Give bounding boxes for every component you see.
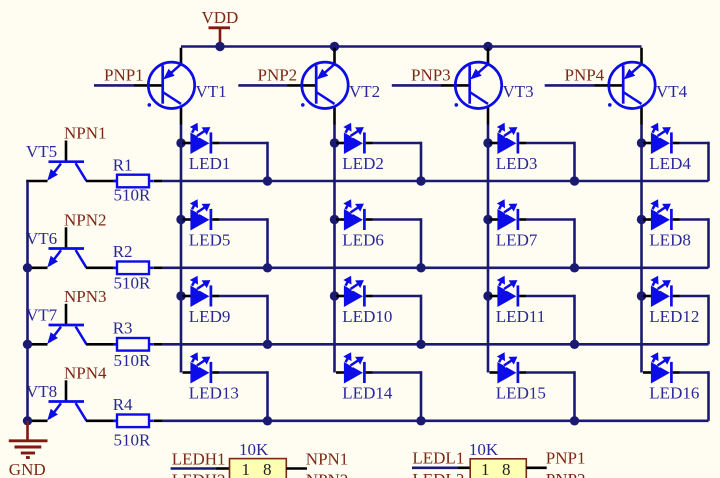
svg-text:LED14: LED14 (342, 383, 393, 402)
LED9 (183, 275, 220, 307)
wire resistor R2 pin (black) (153, 266, 162, 269)
wire net LEDH1 (171, 467, 216, 470)
wire resistor R3 pin (black) (153, 343, 162, 346)
wire LED row 2 (162, 266, 709, 269)
svg-text:VT6: VT6 (26, 229, 57, 248)
junction column 4 row 1 anode (637, 138, 646, 147)
junction row 3 cathode drop column 1 (263, 340, 272, 349)
junction row 3 cathode drop column 3 (570, 340, 579, 349)
LED10 (336, 275, 373, 307)
svg-text:LEDL2: LEDL2 (412, 470, 464, 478)
transistor VT7 (NPN) (47, 304, 86, 345)
junction rail column 3 (483, 42, 492, 51)
svg-text:PNP3: PNP3 (411, 66, 451, 85)
junction column 4 row 2 anode (637, 215, 646, 224)
wire emitter VT6 to left rail (26, 266, 47, 269)
transistor VT2 (PNP) (288, 48, 349, 125)
svg-text:510R: 510R (114, 273, 152, 292)
wire column 4 vertical (640, 125, 643, 373)
svg-text:NPN4: NPN4 (64, 363, 107, 382)
svg-text:R3: R3 (113, 319, 133, 338)
svg-text:PNP2: PNP2 (546, 470, 586, 478)
wire collector VT7 to R3 (86, 343, 117, 346)
wire collector VT8 to R4 (86, 419, 117, 422)
svg-text:LED8: LED8 (649, 230, 691, 249)
svg-text:LED13: LED13 (189, 383, 239, 402)
LED7 (490, 198, 527, 230)
wire base net PNP1 (94, 84, 134, 87)
wire base net PNP3 (392, 84, 441, 87)
svg-text:LED3: LED3 (496, 154, 538, 173)
resistor network box (left) (230, 459, 287, 478)
svg-text:LED1: LED1 (189, 154, 231, 173)
LED1 (183, 122, 220, 154)
junction row 1 cathode drop column 1 (263, 176, 272, 185)
resistor R3 (113, 338, 153, 351)
wire LED14 cathode loop (373, 371, 422, 421)
junction column 4 row 3 anode (637, 291, 646, 300)
wire collector VT5 to R1 (86, 180, 117, 183)
wire LED8 cathode loop (680, 218, 709, 268)
resistor R1 (113, 175, 153, 188)
wire LED16 cathode loop (680, 371, 709, 421)
svg-text:LED6: LED6 (342, 230, 384, 249)
svg-text:VT3: VT3 (503, 82, 534, 101)
junction row 2 cathode drop column 3 (570, 263, 579, 272)
wire LED4 cathode loop (680, 142, 709, 181)
svg-text:PNP1: PNP1 (104, 66, 144, 85)
wire pin 8 to NPN1 (black) (286, 467, 307, 470)
wire LED5 cathode loop (219, 218, 268, 268)
wire LED3 cathode loop (526, 142, 575, 181)
svg-text:8: 8 (263, 460, 272, 478)
wire collector VT6 to R2 (86, 266, 117, 269)
svg-text:R1: R1 (113, 155, 133, 174)
svg-text:LED9: LED9 (189, 307, 231, 326)
wire LED12 cathode loop (680, 295, 709, 345)
svg-text:LED15: LED15 (496, 383, 546, 402)
wire emitter VT8 to left rail (26, 419, 47, 422)
LED11 (490, 275, 527, 307)
svg-text:PNP1: PNP1 (546, 448, 586, 467)
transistor VT4 (PNP) (595, 48, 656, 125)
junction column 1 row 2 anode (176, 215, 185, 224)
junction column 2 row 3 anode (330, 291, 339, 300)
wire LED11 cathode loop (526, 295, 575, 345)
transistor VT6 (NPN) (47, 227, 86, 267)
svg-text:LED10: LED10 (342, 307, 392, 326)
wire base net PNP4 (545, 84, 595, 87)
svg-text:LED2: LED2 (342, 154, 384, 173)
wire LED row 1 (162, 180, 709, 183)
resistor network box (right) (470, 459, 526, 478)
junction row 1 cathode drop column 3 (570, 176, 579, 185)
svg-text:10K: 10K (469, 440, 499, 459)
svg-text:LED16: LED16 (649, 383, 699, 402)
wire LED1 cathode loop (219, 142, 268, 181)
junction left rail row 4 (23, 416, 32, 425)
svg-text:PNP4: PNP4 (565, 66, 605, 85)
junction row 3 cathode drop column 2 (416, 340, 425, 349)
svg-text:PNP2: PNP2 (258, 66, 298, 85)
svg-text:LED7: LED7 (496, 230, 538, 249)
LED16 (643, 351, 680, 383)
svg-text:NPN1: NPN1 (64, 124, 107, 143)
junction left rail row 2 (23, 263, 32, 272)
wire VDD rail (181, 45, 642, 48)
svg-text:LEDH1: LEDH1 (172, 450, 226, 469)
junction row 2 cathode drop column 2 (416, 263, 425, 272)
transistor VT8 (NPN) (47, 380, 86, 421)
wire LED15 cathode loop (526, 371, 575, 421)
svg-text:VT5: VT5 (26, 142, 57, 161)
resistor R2 (113, 262, 153, 275)
ground GND (9, 421, 48, 458)
svg-text:VT1: VT1 (196, 82, 227, 101)
svg-text:NPN2: NPN2 (64, 210, 107, 229)
junction row 2 cathode drop column 1 (263, 263, 272, 272)
svg-text:LEDH2: LEDH2 (172, 471, 226, 478)
wire LED2 cathode loop (373, 142, 422, 181)
svg-text:510R: 510R (114, 431, 152, 450)
svg-text:510R: 510R (114, 185, 152, 204)
wire column 2 vertical (333, 125, 336, 373)
transistor VT1 (PNP) (134, 48, 195, 125)
wire base net PNP2 (238, 84, 287, 87)
wire pin 1 LEDL (black) (458, 466, 470, 469)
svg-text:510R: 510R (114, 351, 152, 370)
wire LED row 4 (162, 419, 709, 422)
transistor VT3 (PNP) (441, 48, 502, 125)
svg-text:LEDL1: LEDL1 (412, 448, 464, 467)
svg-text:1: 1 (481, 460, 490, 478)
wire column 3 vertical (487, 125, 490, 373)
svg-text:VT4: VT4 (656, 82, 688, 101)
svg-text:8: 8 (502, 460, 511, 478)
wire LED row 3 (162, 343, 709, 346)
wire left emitter rail (26, 181, 29, 421)
junction column 3 row 3 anode (483, 291, 492, 300)
junction row 4 cathode drop column 2 (416, 416, 425, 425)
LED15 (490, 351, 527, 383)
wire pin 1 LEDH (black) (216, 467, 230, 470)
LED3 (490, 122, 527, 154)
wire pin 8 to PNP1 (black) (526, 466, 546, 469)
LED4 (643, 122, 680, 154)
junction row 1 cathode drop column 2 (416, 176, 425, 185)
junction row 4 cathode drop column 1 (263, 416, 272, 425)
svg-text:10K: 10K (239, 440, 269, 459)
wire resistor R1 pin (black) (153, 180, 162, 183)
junction column 3 row 2 anode (483, 215, 492, 224)
junction VDD rail (215, 42, 224, 51)
LED2 (336, 122, 373, 154)
junction row 4 cathode drop column 3 (570, 416, 579, 425)
LED5 (183, 198, 220, 230)
transistor VT5 (NPN) (47, 141, 86, 182)
wire LED10 cathode loop (373, 295, 422, 345)
wire LED9 cathode loop (219, 295, 268, 345)
svg-text:NPN3: NPN3 (64, 287, 107, 306)
svg-text:VT2: VT2 (349, 82, 380, 101)
svg-text:LED12: LED12 (649, 307, 699, 326)
wire LED13 cathode loop (219, 371, 268, 421)
svg-text:LED4: LED4 (649, 154, 691, 173)
svg-text:GND: GND (9, 460, 46, 478)
junction column 3 row 1 anode (483, 138, 492, 147)
svg-text:VT8: VT8 (26, 382, 57, 401)
wire LED6 cathode loop (373, 218, 422, 268)
junction column 2 row 2 anode (330, 215, 339, 224)
wire LED7 cathode loop (526, 218, 575, 268)
resistor R4 (113, 415, 153, 428)
LED14 (336, 351, 373, 383)
svg-text:VDD: VDD (202, 8, 239, 27)
junction left rail row 3 (23, 340, 32, 349)
svg-text:VT7: VT7 (26, 305, 58, 324)
power port VDD (202, 8, 239, 47)
svg-text:NPN1: NPN1 (306, 450, 349, 469)
svg-text:NPN2: NPN2 (306, 471, 349, 478)
wire emitter VT5 to left rail (26, 180, 47, 183)
junction column 1 row 1 anode (176, 138, 185, 147)
LED6 (336, 198, 373, 230)
wire net LEDL1 (412, 466, 458, 469)
wire emitter VT7 to left rail (26, 343, 47, 346)
svg-text:LED11: LED11 (496, 307, 545, 326)
wire resistor R4 pin (black) (153, 419, 162, 422)
svg-text:R2: R2 (113, 242, 133, 261)
junction rail column 2 (330, 42, 339, 51)
svg-text:LED5: LED5 (189, 230, 231, 249)
junction column 1 row 3 anode (176, 291, 185, 300)
LED8 (643, 198, 680, 230)
svg-text:R4: R4 (113, 395, 133, 414)
junction column 2 row 1 anode (330, 138, 339, 147)
svg-text:1: 1 (242, 460, 251, 478)
wire column 1 vertical (180, 125, 183, 373)
LED12 (643, 275, 680, 307)
LED13 (183, 351, 220, 383)
